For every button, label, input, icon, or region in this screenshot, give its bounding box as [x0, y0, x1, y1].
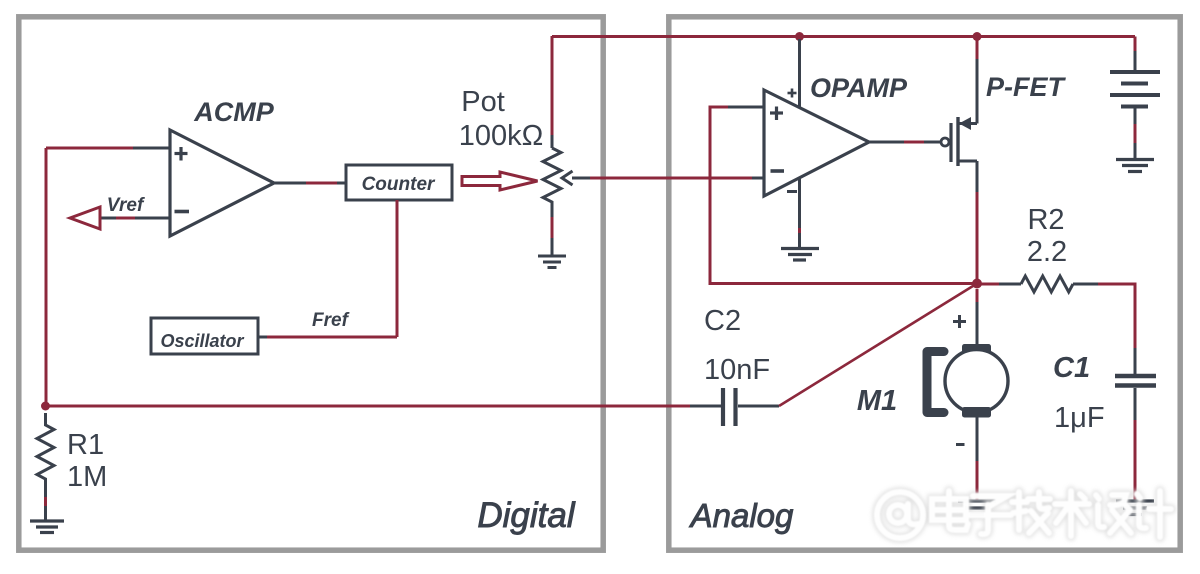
wire: R2 left red segment	[977, 283, 999, 286]
potentiometer Pot zigzag	[543, 148, 561, 206]
wire: R2 right dark lead	[1073, 283, 1098, 286]
wire: battery lead to ground	[1134, 143, 1137, 158]
wire: OPAMP V+ vertical	[798, 39, 801, 108]
label OPAMP V- pin	[787, 190, 797, 193]
svg-text:2.2: 2.2	[1027, 236, 1067, 268]
svg-text:1M: 1M	[67, 461, 107, 493]
wire: motor bottom dark lead	[976, 417, 979, 461]
wire: C2 right dark lead	[738, 405, 779, 408]
transistor P-FET drain arm	[959, 160, 977, 163]
svg-text:Vref: Vref	[107, 195, 145, 216]
svg-text:ACMP: ACMP	[193, 97, 274, 127]
wire: battery bottom red segment	[1134, 124, 1137, 143]
wire: source vertical red top	[976, 39, 979, 59]
transistor P-FET source arm with arrow	[959, 122, 977, 125]
svg-text:OPAMP: OPAMP	[810, 73, 908, 103]
wire: Vref stub from minus input	[135, 217, 170, 220]
label motor plus	[953, 315, 966, 328]
wire: gate red segment	[904, 141, 924, 144]
wire: pot lead to ground	[551, 238, 554, 255]
wire: pot bottom dark lead	[551, 206, 554, 217]
wire: ACMP + input stub (dark)	[133, 147, 170, 150]
capacitor C1 plates	[1115, 376, 1156, 386]
wire: battery top red corner	[1134, 37, 1137, 52]
motor M1 body circle	[945, 350, 1008, 413]
wire: battery bottom dark lead	[1134, 109, 1137, 125]
wire: motor top red lead	[976, 289, 979, 302]
wire: pot top dark lead	[551, 135, 554, 148]
wire: ACMP output dark into Counter	[337, 182, 346, 185]
resistor R1 zigzag	[37, 413, 54, 485]
transistor P-FET gate bar	[949, 123, 952, 162]
ground below OPAMP	[781, 249, 819, 261]
Oscillator block	[151, 318, 258, 354]
svg-text:Fref: Fref	[312, 310, 350, 331]
node: junction dot at OPAMP V+	[795, 32, 804, 41]
wire: wiper red wire to OPAMP minus input	[590, 177, 752, 180]
wire: pot top red vertical	[551, 36, 554, 135]
wire: top supply rail red	[552, 35, 1135, 38]
svg-text:10nF: 10nF	[704, 354, 770, 386]
wire: drain vertical dark	[976, 161, 979, 192]
svg-text:100kΩ: 100kΩ	[459, 120, 544, 152]
wire: motor bottom red lead	[976, 461, 979, 500]
label OPAMP minus input	[771, 169, 785, 173]
wire: left vertical red x=46	[45, 148, 48, 406]
wire: OPAMP V- vertical	[798, 178, 801, 247]
wire: OPAMP + input dark stub	[728, 106, 764, 109]
motor M1 bracket	[927, 352, 944, 413]
wire: wiper dark stub	[572, 177, 590, 180]
wire: source vertical dark	[976, 59, 979, 124]
wire: battery top dark lead	[1134, 51, 1137, 70]
svg-text:Oscillator: Oscillator	[160, 331, 244, 351]
resistor R2 zigzag	[1021, 276, 1073, 292]
pot wiper arrow	[562, 171, 573, 185]
watermark gray halo layer	[877, 491, 1171, 538]
op-amp OPAMP triangle	[764, 90, 869, 196]
wire: motor top dark lead	[976, 302, 979, 345]
svg-text:Analog: Analog	[689, 497, 794, 534]
wire: R2 right red to C1 corner	[1098, 284, 1135, 348]
svg-text:R1: R1	[67, 429, 104, 461]
wire: ACMP output red segment	[306, 182, 337, 185]
ground below R1	[30, 521, 64, 533]
op-amp ACMP triangle	[170, 130, 274, 236]
battery cells	[1110, 72, 1160, 107]
label motor minus	[956, 443, 965, 446]
svg-text:C1: C1	[1053, 352, 1090, 384]
wire: C1 top dark lead	[1134, 348, 1137, 374]
ground below battery	[1116, 160, 1154, 172]
wire: Oscillator output dark stub	[258, 336, 267, 339]
wire: OPAMP output dark stub	[869, 141, 904, 144]
wire: Vref dark segment near arrow	[100, 217, 116, 220]
node: junction dot feedback/R2/motor	[972, 279, 982, 289]
wire: OPAMP + input red corner	[710, 107, 977, 284]
svg-text:Pot: Pot	[461, 86, 505, 118]
wire: C1 bottom red lead	[1134, 420, 1137, 500]
wire: gate dark segment	[924, 141, 941, 144]
big output arrow Counter to Pot	[462, 172, 538, 190]
transistor P-FET gate bubble	[941, 138, 949, 146]
ground below Pot	[538, 256, 566, 268]
Analog block border box	[669, 17, 1180, 550]
svg-text:M1: M1	[857, 385, 897, 417]
wire: C1 bottom dark lead	[1134, 388, 1137, 420]
motor M1 top brush bar	[962, 344, 991, 355]
wire: R1 lead to ground	[44, 506, 47, 520]
capacitor C2 plates	[723, 388, 736, 426]
wire: C2 left dark lead	[690, 405, 721, 408]
label OPAMP plus input	[770, 107, 783, 121]
svg-text:Digital: Digital	[477, 496, 575, 535]
wire: Fref horizontal red	[267, 336, 397, 339]
wire: OPAMP minus input dark stub	[752, 177, 764, 180]
node: junction dot at R1 top	[41, 402, 50, 411]
svg-text:C2: C2	[704, 305, 741, 337]
wire: Counter bottom vertical red	[396, 200, 399, 337]
transistor P-FET channel bar	[956, 117, 959, 166]
svg-text:R2: R2	[1027, 204, 1064, 236]
wire: drain vertical red to junction	[976, 192, 979, 284]
node: junction dot at P-FET source	[973, 32, 982, 41]
label OPAMP V+ pin	[788, 89, 797, 98]
wire: ACMP output dark stub	[274, 182, 306, 185]
svg-text:P-FET: P-FET	[986, 72, 1067, 102]
label ACMP minus input	[175, 210, 190, 214]
Digital block border box	[19, 17, 603, 550]
Vref arrow head (open triangle)	[70, 207, 100, 229]
wire: R2 left dark lead	[999, 283, 1021, 286]
wire: R1 bottom lead red segment	[44, 497, 47, 506]
motor M1 bottom brush bar	[962, 407, 991, 418]
wire: ACMP + input horizontal	[46, 147, 133, 150]
svg-text:Counter: Counter	[362, 174, 436, 195]
watermark white layer	[877, 491, 1171, 538]
wire: diagonal red C2 to junction	[779, 284, 977, 407]
ground below C1	[1116, 501, 1154, 515]
label ACMP plus input	[175, 147, 188, 161]
ground below motor	[958, 501, 996, 515]
wire: OPAMP V- red segment	[798, 228, 801, 233]
wire: R1 bottom lead dark	[44, 485, 47, 497]
svg-text:1μF: 1μF	[1054, 402, 1105, 434]
wire: Vref red segment	[116, 217, 135, 220]
wire: pot bottom red segment	[551, 217, 554, 238]
Counter block	[346, 165, 452, 200]
wire: long horizontal red to C2	[46, 405, 691, 408]
